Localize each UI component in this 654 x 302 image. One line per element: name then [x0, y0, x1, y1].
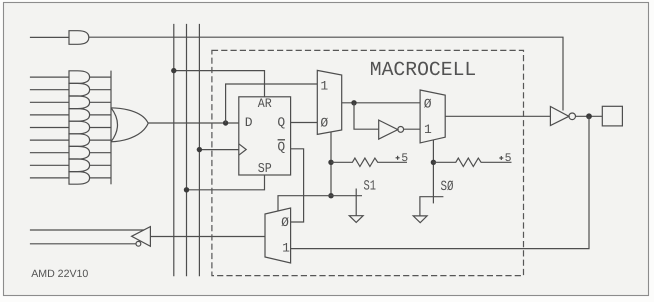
- feedback buffer U4: [132, 227, 151, 247]
- tristate buffer U3: [550, 107, 569, 126]
- wire buffer output to pin: [576, 115, 603, 117]
- svg-text:S1: S1: [364, 179, 377, 195]
- mux M2 (invert select): [420, 90, 445, 143]
- resistor R1 (S1 pull-up): [331, 158, 407, 166]
- wires: AND outputs to OR input bar: [90, 77, 111, 178]
- AND gate G1 (top, output enable product): [69, 31, 89, 45]
- wire OR output (net D): [148, 122, 239, 124]
- node S1 pullup junction: [328, 160, 333, 165]
- ground (S0): [413, 216, 427, 223]
- svg-text:AMD 22V10: AMD 22V10: [31, 268, 88, 280]
- node SP junction: [184, 187, 189, 192]
- ground (S1): [349, 216, 363, 223]
- mux M1 (output select): [317, 70, 341, 134]
- svg-text:Ø: Ø: [281, 215, 289, 230]
- node CLK junction: [197, 147, 202, 152]
- wire bus line 1 (AR net): [173, 24, 175, 276]
- wire Q to mux M1 input 0: [291, 122, 318, 124]
- wire M2 output to tristate buffer: [445, 115, 550, 117]
- svg-text:5: 5: [401, 152, 408, 165]
- label +5 (R1): [396, 156, 400, 160]
- svg-text:SØ: SØ: [441, 179, 454, 195]
- label +5 (R2): [499, 156, 503, 160]
- flip-flop U1 box: [239, 97, 291, 175]
- OR gate U-OR input bar: [110, 71, 112, 185]
- node D junction: [223, 120, 228, 125]
- wire M3 output to feedback buffer: [150, 236, 265, 238]
- wires: AND array input lines: [30, 77, 69, 178]
- macrocell dashed box: [212, 50, 524, 275]
- inverter U2: [379, 120, 398, 139]
- wire bus line 2 (SP net): [186, 24, 188, 276]
- mux M3 (feedback select): [265, 208, 291, 263]
- wire S1 line to switch: [331, 195, 362, 197]
- OR gate U-OR body: [111, 108, 148, 142]
- switch S0 bar: [420, 197, 444, 216]
- svg-text:MACROCELL: MACROCELL: [370, 59, 477, 82]
- svg-text:1: 1: [320, 78, 328, 93]
- svg-text:5: 5: [505, 152, 512, 165]
- wire CLK to flip-flop: [199, 149, 238, 151]
- svg-text:1: 1: [282, 241, 290, 256]
- wire SP from flip-flop: [187, 175, 265, 190]
- wire M2 select (net S0): [432, 140, 434, 203]
- wire to inverter: [354, 103, 379, 129]
- wire Qbar to feedback mux input 0: [291, 149, 304, 222]
- svg-text:Q: Q: [277, 140, 285, 155]
- wire feedback complement output: [30, 243, 136, 245]
- wire pin feedback to mux M3 input 1: [291, 116, 589, 248]
- svg-text:Ø: Ø: [320, 115, 328, 130]
- AND array gates (9 product terms): [69, 71, 90, 184]
- wire S1 line to feedback mux select: [278, 196, 331, 211]
- svg-text:D: D: [245, 115, 253, 130]
- flip-flop clock triangle: [239, 144, 246, 155]
- node M1 output junction: [351, 100, 356, 105]
- wire G1 output to enable (net OE): [89, 37, 563, 110]
- svg-text:1: 1: [424, 122, 432, 137]
- wire G1 input: [30, 36, 69, 38]
- node S1 line junction: [328, 193, 333, 198]
- wire inverter output to mux M2 input 1: [404, 128, 421, 130]
- wire M1 select (net S1): [330, 132, 332, 196]
- wire AR to flip-flop: [174, 71, 265, 97]
- wire feedback true output: [30, 229, 144, 231]
- svg-text:Ø: Ø: [424, 97, 432, 112]
- pin square: [602, 106, 622, 126]
- node AR junction: [171, 68, 176, 73]
- svg-text:AR: AR: [258, 96, 272, 111]
- svg-text:SP: SP: [258, 162, 272, 177]
- feedback buffer complement bubble: [136, 241, 141, 246]
- node pin junction: [586, 113, 592, 119]
- switch S1 bar: [355, 189, 357, 216]
- svg-text:Q: Q: [277, 115, 285, 130]
- node S0 pullup junction: [431, 160, 436, 165]
- resistor R2 (S0 pull-up): [433, 158, 511, 166]
- wire bus line 3 (CLK net): [198, 24, 200, 276]
- wire D tap to mux M1 input 1: [226, 84, 318, 123]
- wire M1 output: [342, 102, 420, 104]
